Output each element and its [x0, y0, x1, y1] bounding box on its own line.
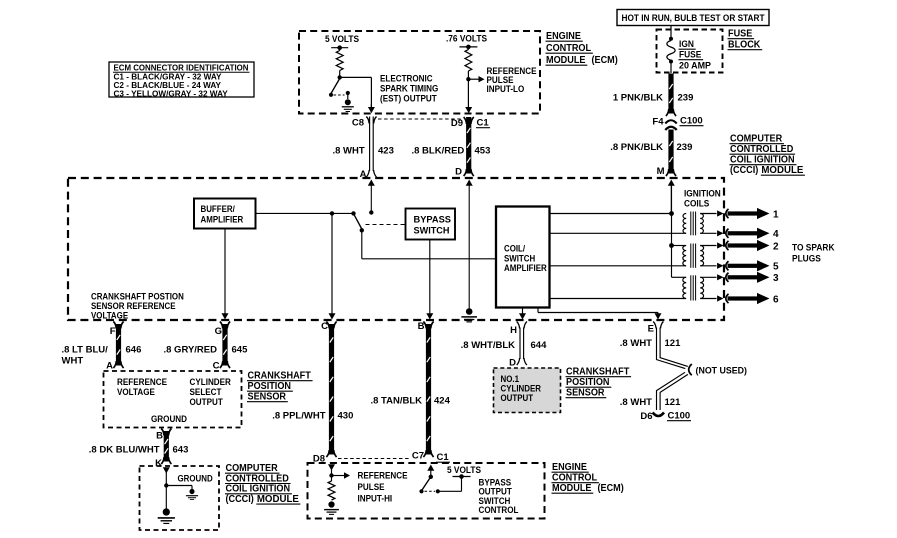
- svg-text:C7: C7: [412, 451, 424, 462]
- node B: [418, 321, 425, 332]
- node A sensor: [106, 361, 113, 372]
- junction C feed: [330, 211, 334, 215]
- svg-text:5 VOLTS: 5 VOLTS: [447, 465, 481, 475]
- label C1 bottom: [436, 452, 450, 463]
- ground coil switch amplifier: [461, 308, 477, 322]
- svg-text:FUSE: FUSE: [679, 50, 701, 60]
- svg-text:COILS: COILS: [684, 199, 709, 209]
- svg-text:CRANKSHAFT: CRANKSHAFT: [248, 371, 311, 382]
- svg-text:SPARK TIMING: SPARK TIMING: [380, 84, 438, 94]
- wire bypass 5v: [438, 478, 462, 492]
- ground main: [158, 508, 175, 523]
- arrow to REFERENCE PULSE INPUT-LO: [468, 76, 484, 82]
- connector D9: [451, 117, 474, 129]
- spark plug output 2: [717, 240, 779, 252]
- arrow into ground box at K: [163, 467, 170, 485]
- svg-text:646: 646: [126, 345, 142, 356]
- svg-text:D: D: [455, 167, 462, 178]
- svg-text:(EST) OUTPUT: (EST) OUTPUT: [380, 94, 437, 104]
- svg-text:INPUT-LO: INPUT-LO: [487, 84, 525, 94]
- node H: [510, 325, 517, 336]
- svg-text:K: K: [155, 458, 162, 469]
- svg-text:453: 453: [475, 146, 491, 157]
- arrow at G inside: [222, 313, 229, 319]
- svg-text:(CCCI): (CCCI): [730, 165, 758, 176]
- wire 646: [113, 322, 123, 369]
- fuse block dashed box: [657, 30, 723, 73]
- arrow into module at A: [368, 180, 375, 212]
- svg-text:C100: C100: [680, 116, 703, 127]
- svg-text:121: 121: [665, 397, 682, 408]
- node .76 volts: [459, 45, 477, 50]
- label .8 BLK/RED 453: [412, 146, 491, 157]
- node 5 volts bypass: [453, 474, 471, 479]
- label 5 VOLTS: [325, 34, 359, 44]
- label NO.1 CYLINDER OUTPUT: [501, 374, 542, 403]
- svg-text:CONTROL: CONTROL: [552, 473, 597, 484]
- label .8 PNK/BLK 239: [610, 142, 692, 153]
- label BYPASS OUTPUT SWITCH CONTROL: [479, 478, 519, 516]
- node M: [657, 166, 665, 177]
- label FUSE BLOCK: [728, 29, 763, 51]
- node A: [360, 169, 367, 180]
- svg-text:.76 VOLTS: .76 VOLTS: [446, 34, 487, 44]
- no1 cylinder output box: [494, 368, 561, 413]
- arrow into module at D: [466, 180, 473, 310]
- svg-text:C8: C8: [352, 118, 364, 129]
- svg-text:HOT IN RUN, BULB TEST OR START: HOT IN RUN, BULB TEST OR START: [622, 13, 766, 23]
- svg-text:OUTPUT: OUTPUT: [190, 397, 224, 407]
- wire ground branch: [166, 486, 192, 490]
- svg-text:INPUT-HI: INPUT-HI: [358, 494, 393, 504]
- node D8: [313, 454, 325, 465]
- label REFERENCE VOLTAGE: [117, 377, 167, 397]
- wire amplifier to H: [522, 308, 524, 314]
- svg-text:.8 TAN/BLK: .8 TAN/BLK: [370, 396, 422, 407]
- node D sensor: [509, 358, 516, 369]
- spark plug output 3: [717, 272, 779, 284]
- svg-text:CYLINDER: CYLINDER: [190, 377, 232, 387]
- label C1 top: [476, 118, 490, 129]
- svg-text:SWITCH: SWITCH: [414, 226, 450, 236]
- svg-text:OUTPUT: OUTPUT: [501, 393, 534, 403]
- wire amplifier to E: [538, 308, 658, 314]
- node A drop: [369, 210, 373, 214]
- svg-text:(CCCI): (CCCI): [226, 494, 254, 505]
- svg-text:SENSOR REFERENCE: SENSOR REFERENCE: [91, 301, 176, 311]
- bypass output switch arm: [419, 477, 430, 494]
- node 5 volts: [331, 45, 348, 50]
- connector not used: [689, 364, 747, 377]
- svg-text:.8 PPL/WHT: .8 PPL/WHT: [272, 411, 326, 422]
- svg-text:.8 WHT/BLK: .8 WHT/BLK: [461, 340, 515, 351]
- legend box ECM connector identification: [109, 62, 254, 98]
- svg-text:SWITCH: SWITCH: [504, 253, 535, 263]
- wire to D9: [467, 79, 469, 108]
- connector D6 C100: [640, 411, 691, 423]
- node C: [321, 321, 328, 332]
- svg-text:REFERENCE: REFERENCE: [117, 377, 167, 387]
- wire 121 upper: [653, 322, 688, 369]
- svg-text:TO SPARK: TO SPARK: [792, 243, 835, 253]
- svg-text:645: 645: [232, 345, 249, 356]
- resistor EST pull-up: [336, 48, 343, 78]
- CCCI ground dashed box: [140, 466, 220, 530]
- label CRANKSHAFT POSITION SENSOR right: [566, 367, 632, 399]
- label COMPUTER CONTROLLED COIL IGNITION (CCCI) MODULE top right: [730, 134, 805, 177]
- svg-text:239: 239: [677, 142, 693, 153]
- junction EST: [338, 75, 342, 79]
- svg-text:2: 2: [773, 241, 779, 252]
- svg-text:C3 - YELLOW/GRAY - 32 WAY: C3 - YELLOW/GRAY - 32 WAY: [114, 89, 229, 98]
- svg-text:IGNITION: IGNITION: [684, 189, 721, 199]
- ECM bottom dashed box: [308, 463, 545, 519]
- resistor reference pulse hi: [328, 481, 335, 500]
- dashed link to bypass switch: [366, 224, 406, 226]
- svg-text:VOLTAGE: VOLTAGE: [91, 311, 128, 321]
- svg-text:ECM CONNECTOR IDENTIFICATION: ECM CONNECTOR IDENTIFICATION: [114, 64, 249, 73]
- svg-text:MODULE: MODULE: [761, 165, 803, 176]
- EST switch dashed link: [334, 94, 345, 96]
- svg-text:COIL/: COIL/: [504, 244, 526, 254]
- svg-text:D9: D9: [451, 118, 463, 129]
- svg-text:B: B: [156, 431, 163, 442]
- svg-text:BYPASS: BYPASS: [414, 215, 452, 225]
- arrow at E inside: [655, 313, 662, 319]
- svg-text:D6: D6: [640, 411, 652, 422]
- ECM top dashed box: [299, 31, 540, 114]
- svg-text:644: 644: [531, 340, 548, 351]
- label GROUND box: [178, 474, 213, 484]
- switch contact EST side: [351, 211, 355, 215]
- svg-text:A: A: [106, 361, 113, 372]
- svg-text:F: F: [110, 326, 116, 337]
- ignition coil T2: [683, 244, 717, 268]
- svg-text:D: D: [509, 358, 516, 369]
- connector C8: [352, 117, 377, 129]
- ignition coil T1: [683, 212, 716, 236]
- svg-text:GROUND: GROUND: [178, 474, 213, 484]
- wire junction to C: [331, 213, 333, 313]
- label IGNITION COILS: [684, 189, 721, 209]
- svg-text:F4: F4: [652, 117, 664, 128]
- wire 423: [366, 117, 376, 178]
- wire 121 lower: [657, 372, 688, 410]
- svg-text:VOLTAGE: VOLTAGE: [117, 387, 155, 397]
- svg-text:C: C: [213, 361, 220, 372]
- wire switch to amplifier: [362, 230, 496, 258]
- label .8 TAN/BLK 424: [370, 396, 450, 407]
- dashed connector line C1: [378, 118, 461, 120]
- svg-text:SENSOR: SENSOR: [248, 392, 287, 403]
- svg-text:(NOT USED): (NOT USED): [696, 366, 748, 377]
- svg-text:BUFFER/: BUFFER/: [201, 204, 236, 214]
- svg-text:CONTROL: CONTROL: [546, 43, 591, 54]
- svg-text:AMPLIFIER: AMPLIFIER: [504, 263, 547, 273]
- label .76 VOLTS: [446, 34, 487, 44]
- svg-text:SELECT: SELECT: [190, 387, 222, 397]
- ground reference pulse hi: [324, 501, 339, 514]
- label .8 WHT 423: [333, 146, 394, 157]
- label TO SPARK PLUGS: [792, 243, 835, 264]
- svg-text:20 AMP: 20 AMP: [679, 61, 711, 71]
- svg-text:(ECM): (ECM): [597, 483, 623, 494]
- svg-text:C1: C1: [477, 118, 490, 129]
- svg-text:POSITION: POSITION: [566, 377, 610, 388]
- svg-text:C100: C100: [668, 411, 691, 422]
- arrow into module at M: [668, 180, 675, 214]
- svg-text:CONTROLLED: CONTROLLED: [730, 144, 793, 155]
- wire amplifier out 1: [550, 213, 672, 215]
- arrow at H inside: [519, 313, 526, 319]
- label ELECTRONIC SPARK TIMING (EST) OUTPUT: [380, 74, 438, 104]
- node G: [215, 326, 222, 337]
- wire 430: [326, 322, 336, 458]
- wire buffer to G: [224, 229, 226, 314]
- ignition coil T3: [683, 275, 717, 300]
- wire 645: [220, 322, 230, 369]
- resistor reference pulse lo: [465, 47, 472, 79]
- svg-text:5: 5: [773, 262, 779, 273]
- svg-text:NO.1: NO.1: [501, 374, 520, 384]
- svg-text:CRANKSHAFT: CRANKSHAFT: [566, 367, 629, 378]
- svg-text:D8: D8: [313, 454, 325, 465]
- wire 239 upper: [666, 74, 676, 117]
- wire 239 lower: [666, 130, 676, 177]
- dashed connector line bottom: [338, 458, 410, 460]
- ground small: [186, 489, 198, 500]
- EST switch arm: [329, 79, 340, 97]
- svg-text:CONTROL: CONTROL: [479, 505, 519, 515]
- bypass switch contact: [436, 489, 440, 493]
- svg-text:ENGINE: ENGINE: [552, 462, 587, 473]
- label COMPUTER CONTROLLED COIL IGNITION (CCCI) MODULE bottom: [225, 463, 300, 505]
- svg-text:COMPUTER: COMPUTER: [730, 134, 782, 145]
- junction reference pulse lo: [466, 77, 470, 81]
- svg-text:6: 6: [773, 294, 779, 305]
- svg-text:ELECTRONIC: ELECTRONIC: [380, 74, 433, 84]
- svg-text:E: E: [648, 324, 654, 335]
- bypass switch arm: [354, 214, 364, 232]
- label .8 LT BLU/WHT 646: [62, 345, 142, 367]
- arrow out of ECM at C7: [427, 465, 434, 477]
- label ENGINE CONTROL MODULE (ECM) top: [546, 31, 618, 66]
- label REFERENCE PULSE INPUT-LO: [487, 66, 537, 94]
- fuse IGN 20A: [667, 37, 675, 73]
- arrow into ECM at D8: [328, 464, 335, 481]
- svg-text:.8 DK BLU/WHT: .8 DK BLU/WHT: [89, 445, 160, 456]
- label GROUND sensor: [151, 414, 187, 424]
- wire hot to fuse: [670, 26, 672, 38]
- label CYLINDER SELECT OUTPUT: [190, 377, 232, 407]
- svg-text:ENGINE: ENGINE: [546, 31, 581, 42]
- svg-text:4: 4: [773, 229, 779, 240]
- svg-text:MODULE: MODULE: [546, 55, 586, 66]
- svg-text:(ECM): (ECM): [591, 55, 617, 66]
- svg-text:AMPLIFIER: AMPLIFIER: [201, 215, 244, 225]
- CCCI module main dashed box: [68, 178, 724, 320]
- svg-text:WHT: WHT: [62, 356, 84, 367]
- label .8 WHT 121 lower: [620, 397, 681, 408]
- label REFERENCE PULSE INPUT-HI: [358, 471, 408, 504]
- label .8 WHT/BLK 644: [461, 340, 547, 351]
- svg-text:MODULE: MODULE: [257, 494, 299, 505]
- svg-text:IGN: IGN: [679, 39, 694, 49]
- svg-text:PLUGS: PLUGS: [792, 254, 821, 264]
- svg-text:POSITION: POSITION: [248, 381, 292, 392]
- spark plug output 1: [717, 208, 779, 220]
- svg-text:COIL IGNITION: COIL IGNITION: [730, 155, 795, 166]
- label 1 PNK/BLK 239: [613, 93, 694, 104]
- svg-text:239: 239: [678, 93, 694, 104]
- arrow into C8: [368, 104, 375, 113]
- wire 644: [517, 322, 527, 366]
- wire amplifier out 4: [550, 298, 686, 300]
- junction coil 2 feed: [669, 243, 674, 248]
- node F: [110, 326, 116, 337]
- svg-text:.8 WHT: .8 WHT: [620, 338, 652, 349]
- connector F4 C100: [652, 116, 703, 131]
- svg-text:424: 424: [434, 396, 451, 407]
- label .8 WHT 121 upper: [620, 338, 681, 349]
- label .8 GRY/RED 645: [164, 345, 249, 356]
- node C sensor: [213, 361, 220, 372]
- svg-text:.8 PNK/BLK: .8 PNK/BLK: [610, 142, 663, 153]
- arrow to REFERENCE PULSE INPUT-HI: [332, 472, 351, 478]
- svg-text:H: H: [510, 325, 517, 336]
- node E: [648, 324, 654, 335]
- ignition feed line from M: [672, 184, 687, 277]
- box HOT IN RUN: [617, 10, 769, 26]
- label .8 DK BLU/WHT 643: [89, 445, 189, 456]
- svg-text:.8 WHT: .8 WHT: [333, 146, 365, 157]
- svg-text:CYLINDER: CYLINDER: [501, 384, 542, 394]
- bypass switch dashed link: [425, 490, 436, 492]
- buffer amplifier U1: [194, 199, 256, 229]
- svg-text:643: 643: [173, 445, 189, 456]
- svg-text:GROUND: GROUND: [151, 414, 187, 424]
- svg-text:.8 WHT: .8 WHT: [620, 397, 652, 408]
- junction bypass switch: [429, 475, 433, 479]
- svg-text:.8 LT BLU/: .8 LT BLU/: [62, 345, 109, 356]
- junction coil 1 feed: [669, 211, 674, 216]
- node B sensor ground: [156, 431, 163, 442]
- svg-text:PULSE: PULSE: [358, 482, 385, 492]
- node D: [455, 167, 462, 178]
- svg-text:M: M: [657, 166, 665, 177]
- wire 424: [423, 322, 433, 458]
- spark plug output 5: [717, 260, 779, 272]
- svg-text:121: 121: [665, 338, 682, 349]
- svg-text:REFERENCE: REFERENCE: [358, 471, 408, 481]
- wire amplifier out 3: [550, 265, 686, 267]
- node K: [155, 458, 162, 469]
- label 5 VOLTS bypass: [447, 465, 481, 475]
- wire EST junction to C8: [340, 77, 372, 108]
- arrow at B inside: [426, 313, 433, 319]
- EST switch ground contact: [342, 91, 354, 112]
- label ENGINE CONTROL MODULE (ECM) bottom: [552, 462, 624, 494]
- junction ground: [164, 483, 168, 487]
- svg-text:430: 430: [338, 411, 354, 422]
- arrow into D9: [465, 107, 472, 113]
- label crankshaft position sensor reference voltage: [91, 292, 184, 321]
- svg-text:5 VOLTS: 5 VOLTS: [325, 34, 359, 44]
- wire 453: [464, 117, 474, 176]
- coil switch amplifier U2: [496, 207, 550, 308]
- label IGN FUSE 20 AMP: [679, 39, 712, 71]
- node C7: [412, 451, 424, 462]
- svg-text:G: G: [215, 326, 222, 337]
- wire to switch contact: [332, 212, 354, 214]
- svg-text:1 PNK/BLK: 1 PNK/BLK: [613, 93, 663, 104]
- spark plug output 4: [717, 228, 779, 240]
- svg-text:MODULE: MODULE: [552, 483, 592, 494]
- crankshaft position sensor box: [104, 371, 242, 428]
- svg-text:BLOCK: BLOCK: [728, 40, 760, 51]
- spark plug output 6: [717, 293, 779, 305]
- svg-text:CRANKSHAFT POSTION: CRANKSHAFT POSTION: [91, 292, 184, 302]
- wire bypass to B: [429, 240, 431, 314]
- label CRANKSHAFT POSITION SENSOR left: [247, 371, 313, 403]
- svg-text:FUSE: FUSE: [728, 29, 753, 40]
- svg-text:.8 BLK/RED: .8 BLK/RED: [412, 146, 465, 157]
- arrow at C inside: [329, 313, 336, 319]
- label .8 PPL/WHT 430: [272, 411, 353, 422]
- svg-text:SENSOR: SENSOR: [566, 388, 605, 399]
- svg-text:.8 GRY/RED: .8 GRY/RED: [164, 345, 218, 356]
- bypass switch box: [406, 209, 456, 240]
- svg-text:423: 423: [378, 146, 394, 157]
- svg-text:3: 3: [773, 273, 779, 284]
- wire 643: [161, 429, 171, 465]
- wire ground main: [165, 486, 167, 509]
- wire buffer output: [256, 212, 332, 214]
- junction reference pulse hi: [329, 473, 333, 477]
- svg-text:1: 1: [773, 209, 779, 220]
- svg-text:C1: C1: [437, 452, 450, 463]
- wire amplifier out 2: [550, 232, 686, 234]
